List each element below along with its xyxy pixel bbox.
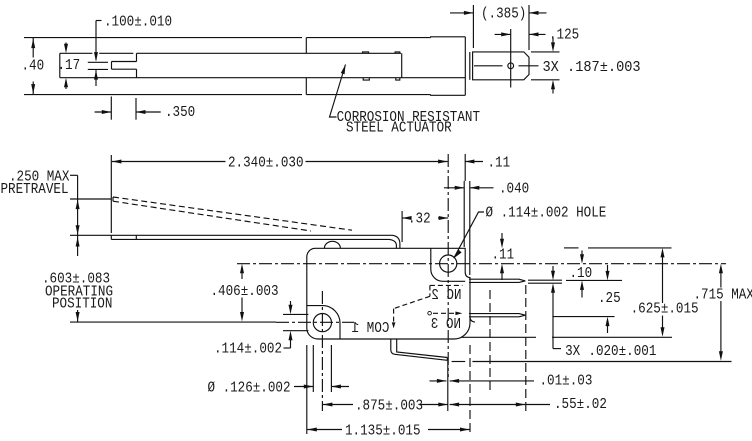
- marking leader dashed diagonal: [394, 296, 430, 308]
- top view: hinge cutout right vertical lower: [136, 69, 138, 78]
- extension hidden vertical mid dashed: [489, 290, 491, 393]
- dim .11 pivot arrow up: [500, 264, 504, 274]
- dim hole leader arrow: [454, 250, 462, 258]
- dim .01 arrow right: [437, 379, 447, 383]
- top view: hinge cutout top: [112, 61, 137, 63]
- dim 3X .187 arrow up: [552, 88, 554, 94]
- dim .32 line left: [402, 217, 406, 219]
- svg-text:.100±.010: .100±.010: [104, 13, 172, 31]
- top view: actuator outer bottom edge: [24, 94, 302, 96]
- dim 1.135 arrow left: [307, 428, 317, 432]
- dim 2.340 arrow left: [112, 160, 122, 164]
- com terminal hook tip cap: [446, 358, 448, 361]
- top view: lever upper edge left part: [60, 52, 93, 54]
- main horizontal centerline: [237, 263, 726, 265]
- dim .040 arrow right: [455, 186, 465, 190]
- com terminal hook outer: [391, 339, 448, 360]
- dim .32 line right: [438, 217, 448, 219]
- svg-text:(.385): (.385): [481, 5, 526, 23]
- dim .17 arrow down (above band): [64, 44, 68, 54]
- dim 1.135 line left: [307, 429, 342, 431]
- dim .10 arrow up: [580, 280, 584, 290]
- top view: terminal hole: [508, 63, 514, 69]
- svg-text:.11: .11: [488, 153, 511, 171]
- dim .17 line segments: [65, 43, 67, 48]
- top view: body left edge upper: [305, 38, 307, 54]
- dim .126 tail left: [294, 386, 313, 388]
- dim 2.340 line right: [306, 161, 448, 163]
- svg-text:.020±.001: .020±.001: [588, 342, 656, 360]
- extension dim625 bottom right part: [552, 336, 672, 338]
- top view: lever tab 1 top: [363, 52, 369, 53]
- svg-text:.350: .350: [165, 103, 195, 121]
- dim .875 arrow right: [438, 403, 448, 407]
- dim 2.340 arrow right: [438, 160, 448, 164]
- svg-text:.625±.015: .625±.015: [631, 300, 699, 318]
- top view: body right edge: [464, 37, 466, 96]
- pivot vertical centerline: [447, 154, 449, 377]
- svg-text:.17: .17: [58, 56, 81, 74]
- terminal NO root fillet: [470, 317, 475, 322]
- dim .11 pivot arrow down: [501, 233, 503, 240]
- dim (.385) tail left: [450, 12, 473, 14]
- marking leader arrow: [392, 322, 396, 328]
- dim .125 tail left: [495, 33, 511, 35]
- top view: hinge cutout bottom: [112, 68, 137, 70]
- mounting hole: [313, 314, 331, 332]
- dim .55 tail right: [525, 404, 550, 406]
- top view: body top edge: [306, 37, 430, 39]
- top view: hinge cutout right vertical upper: [136, 53, 138, 61]
- top view: lever lower edge: [60, 77, 466, 79]
- terminal NO blade: [469, 314, 525, 317]
- operating position line: [70, 321, 276, 323]
- lever free position end cap: [112, 197, 114, 201]
- lever solid bottom edge: [111, 238, 389, 240]
- dim .126 tail right: [331, 386, 349, 388]
- dim .25 arrow up: [606, 317, 610, 327]
- top view: lever tab 2 bottom: [396, 78, 400, 80]
- lever free position dashed lower: [113, 201, 311, 231]
- extension terminal tips dashed: [525, 285, 527, 412]
- svg-text:.11: .11: [492, 246, 515, 264]
- top view: slot upper line: [88, 61, 108, 63]
- dim .603 arrow up: [76, 237, 80, 247]
- lever free position dashed upper: [113, 197, 352, 230]
- dim .350 tail left: [95, 111, 112, 113]
- dim .40 arrow down: [31, 84, 35, 94]
- dim .040 tail right: [470, 187, 494, 189]
- svg-text:.32: .32: [408, 210, 431, 228]
- svg-text:.10: .10: [570, 264, 593, 282]
- dim .01 tail right: [450, 380, 534, 382]
- dim .126 arrow left: [331, 385, 341, 389]
- svg-text:.114±.002: .114±.002: [214, 340, 282, 358]
- svg-text:.406±.003: .406±.003: [211, 282, 279, 300]
- dim .125 tail right: [529, 33, 546, 35]
- svg-text:1.135±.015: 1.135±.015: [345, 422, 421, 440]
- top view: body top step: [431, 36, 466, 39]
- dim .875 arrow left: [323, 403, 333, 407]
- svg-text:COM 1: COM 1: [352, 319, 390, 337]
- marking dot: [428, 311, 432, 315]
- dim (.385) arrow left: [529, 11, 539, 15]
- dim .040 extension left: [463, 181, 465, 247]
- lever tip end cap: [110, 235, 112, 239]
- hook tip extension vertical: [447, 358, 449, 411]
- lever bend inner: [389, 239, 396, 248]
- dim .01 arrow left: [450, 379, 460, 383]
- top view: terminal horizontal centerline left: [474, 65, 503, 67]
- dim hole leader line: [454, 212, 484, 258]
- top view: actuator outer top edge: [24, 37, 302, 39]
- extension body left edge down: [306, 345, 308, 434]
- svg-text:Ø .126±.002: Ø .126±.002: [208, 379, 291, 397]
- dim .114 bracket tick: [284, 347, 291, 349]
- dim .875 line right: [420, 404, 448, 406]
- top view: lever tab 2 top: [395, 52, 400, 53]
- dim .406 arrow down: [241, 298, 243, 314]
- dim .114 arrow down: [290, 301, 292, 306]
- dim .100 arrow up: [94, 70, 98, 80]
- terminal NC blade: [469, 279, 525, 282]
- dim .40 extension is outer lines; dim line upper segment: [32, 38, 34, 58]
- dim .32 arrow left: [402, 216, 412, 220]
- dim .350 arrow right: [102, 110, 112, 114]
- top view: body bottom step: [431, 94, 466, 97]
- dim .603 arrow down: [76, 312, 80, 322]
- dim .625 arrow up: [661, 248, 665, 258]
- top view: lever upper edge right part: [137, 52, 402, 54]
- dim 3X .187 arrow down: [552, 38, 554, 44]
- marking leader dashed vertical: [393, 309, 395, 324]
- svg-text:.25: .25: [598, 289, 621, 307]
- pivot hole: [440, 255, 457, 272]
- dim 3X .020 bracket vertical: [552, 292, 554, 349]
- dim 3X .020 bracket tick: [553, 348, 561, 350]
- svg-text:.40: .40: [22, 57, 45, 75]
- dim .17 arrow up (below band): [64, 78, 68, 88]
- dim .126 extension right: [330, 345, 332, 392]
- marking dashed arrow line: [433, 312, 457, 314]
- dim .040 arrow left: [470, 186, 480, 190]
- dim .350 extension line right: [135, 98, 137, 120]
- dim .350 extension line left: [110, 97, 112, 120]
- dim .125 arrow right: [501, 32, 511, 36]
- dim .114 arrow up: [289, 331, 293, 341]
- dim 1.135 arrow right: [460, 428, 470, 432]
- extension terminal NC top long: [566, 279, 622, 281]
- marking NC 2 mirrored text: [431, 286, 461, 304]
- switch body outline: [307, 248, 470, 339]
- svg-text:2.340±.030: 2.340±.030: [228, 154, 304, 172]
- dim .11 top tail: [465, 161, 483, 163]
- dim .125 arrow left: [529, 32, 539, 36]
- dim .55 arrow left: [450, 403, 460, 407]
- leader corrosion resistant line: [330, 65, 346, 118]
- dim .10 arrow down: [581, 251, 583, 257]
- dim .126 arrow right: [304, 385, 314, 389]
- hook bottom extension line: [452, 361, 466, 363]
- mounting hole vertical centerline: [321, 291, 323, 411]
- extension terminal NO bottom: [552, 316, 614, 318]
- dim .350 arrow left: [136, 110, 146, 114]
- dim 3X .020 arrow up: [551, 283, 555, 293]
- mounting hole horizontal centerline: [276, 321, 354, 323]
- dim .406 arrow up: [240, 264, 244, 274]
- dim .114 extension top: [283, 313, 308, 315]
- extension dim625 bottom left part: [461, 336, 536, 338]
- dim .250 arrow down: [76, 225, 80, 235]
- pretravel extension top: [70, 198, 111, 200]
- dim .11 top arrow left: [465, 160, 475, 164]
- dim .250 arrow up: [76, 200, 80, 210]
- dim .100 arrow down: [94, 52, 98, 62]
- dim .040 extension right: [469, 181, 471, 275]
- svg-text:STEEL ACTUATOR: STEEL ACTUATOR: [346, 119, 452, 137]
- dim .55 arrow right: [516, 403, 526, 407]
- svg-text:3X: 3X: [565, 342, 580, 360]
- dim .040 tail left: [444, 187, 464, 189]
- lever solid top edge: [111, 234, 392, 236]
- svg-text:POSITION: POSITION: [52, 295, 112, 313]
- marking NC box dashed top: [430, 284, 463, 286]
- dim 2.340 left extension: [110, 155, 112, 233]
- svg-text:.55±.02: .55±.02: [554, 395, 607, 413]
- marking NO 3 mirrored text: [431, 315, 461, 333]
- dim .32 extension line: [401, 211, 403, 242]
- top view: terminal root edge: [469, 52, 471, 80]
- dim 3X .187 extension bottom: [531, 79, 560, 81]
- svg-text:.01±.03: .01±.03: [540, 372, 593, 390]
- mounting boss outline: [307, 306, 340, 339]
- dim .32 arrow right: [439, 216, 449, 220]
- svg-text:PRETRAVEL: PRETRAVEL: [1, 180, 69, 198]
- top view: hinge cutout left vertical: [111, 62, 113, 70]
- dim 2.340 line left: [112, 161, 226, 163]
- dim .100 leader vertical: [95, 21, 97, 61]
- top view: body bottom edge: [306, 94, 430, 96]
- top view: body left edge lower: [305, 78, 307, 95]
- marking dashed arrow head: [455, 312, 462, 316]
- svg-text:NO 3: NO 3: [431, 315, 461, 333]
- extension top edge right: [564, 247, 579, 249]
- dim (.385) extension right: [528, 5, 530, 50]
- left dim stack vertical upper: [77, 175, 79, 256]
- dim 1.135 line right: [428, 429, 470, 431]
- dim (.385) extension left: [472, 5, 474, 48]
- svg-text:.040: .040: [499, 180, 529, 198]
- dim 3X .187 extension top: [531, 51, 560, 53]
- top view: lever tip end cap: [59, 53, 61, 77]
- svg-text:.875±.003: .875±.003: [355, 397, 423, 415]
- svg-text:.715 MAX: .715 MAX: [694, 286, 752, 304]
- dim (.385) tail right: [529, 12, 547, 14]
- pivot boss pocket: [431, 248, 465, 281]
- extension terminal NC bottom short: [528, 282, 562, 284]
- extension body right edge down dashed: [469, 345, 471, 434]
- dim (.385) arrow right: [464, 11, 474, 15]
- top view: terminal vertical centerline: [510, 29, 512, 88]
- top view: slot lower line: [88, 68, 108, 70]
- left dim stack vertical lower: [77, 310, 79, 322]
- top view: lever tab 1 bottom: [363, 78, 369, 80]
- dim .55 line: [450, 404, 526, 406]
- dim .715 arrow down: [720, 301, 722, 353]
- left dim stack tick: [70, 174, 78, 176]
- dim .350 tail right: [136, 111, 161, 113]
- extension terminal NC top short: [528, 279, 562, 281]
- dim .40 arrow up: [31, 39, 35, 49]
- dim 3X .020 arrow down: [552, 266, 554, 272]
- dim .100 leader tick: [96, 20, 102, 22]
- dim .715 arrow up: [719, 264, 723, 274]
- leader corrosion resistant arrow: [341, 65, 346, 75]
- top view: terminal blade outline: [473, 52, 529, 80]
- svg-text:3X .187±.003: 3X .187±.003: [543, 58, 641, 76]
- pretravel extension bottom: [70, 234, 111, 236]
- dim .625 arrow down: [662, 316, 664, 329]
- dim .01 tail left: [430, 380, 447, 382]
- dim .875 line left: [323, 404, 353, 406]
- extension line body right top corner: [464, 154, 466, 181]
- svg-text:Ø .114±.002 HOLE: Ø .114±.002 HOLE: [486, 204, 607, 222]
- body top bump: [324, 241, 340, 248]
- marking COM 1 mirrored text: [352, 319, 390, 337]
- top view: lever end inside body: [401, 53, 403, 77]
- dim .114 extension bottom: [283, 330, 308, 332]
- marking NC box dashed left: [429, 285, 431, 296]
- lever bend outer: [393, 235, 400, 248]
- dim .25 arrow down: [607, 265, 609, 272]
- svg-text:NC 2: NC 2: [431, 286, 461, 304]
- lever tip bend tick: [135, 235, 137, 239]
- com terminal hook inner: [397, 339, 448, 358]
- dim .126 extension left: [312, 345, 314, 392]
- top view: terminal horizontal centerline right: [519, 65, 539, 67]
